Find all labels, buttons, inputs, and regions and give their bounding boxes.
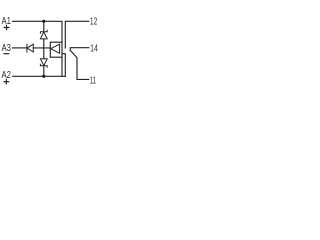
node junction on A2 wire <box>42 75 45 78</box>
polarity + under A1 <box>4 25 9 29</box>
wire mechanical link tick <box>62 54 65 77</box>
svg-text:12: 12 <box>90 17 98 28</box>
contact arm diagonal to common <box>70 50 89 79</box>
wire between zener diodes <box>43 39 45 59</box>
wire suppressor branch lower <box>43 66 45 77</box>
terminal label 14 <box>90 43 98 54</box>
wire A3 horizontal <box>13 47 27 49</box>
wire coil bottom drop to A2 <box>61 57 63 76</box>
relay coil K1 box <box>50 42 62 57</box>
terminal label 11 <box>90 76 96 87</box>
diode D1 triangle pointing left <box>27 44 33 52</box>
polarity - under A3 <box>4 53 9 55</box>
zener diode Z1 cathode bar <box>40 30 47 33</box>
relay coil K1 polarity triangle <box>51 44 60 53</box>
zener diode Z2 triangle <box>40 59 47 66</box>
wire A1 horizontal with drop to coil <box>13 21 63 42</box>
zener diode Z2 cathode bar <box>40 64 47 67</box>
terminal label A2 <box>2 70 12 81</box>
svg-text:14: 14 <box>90 43 98 54</box>
terminal label A1 <box>2 16 12 27</box>
wire A3 to coil <box>33 47 50 49</box>
wire terminal 14 with NO contact stub <box>70 48 89 51</box>
diode D1 cathode bar <box>26 44 28 52</box>
wire A2 horizontal <box>13 75 66 77</box>
terminal label 12 <box>90 17 98 28</box>
svg-text:A3: A3 <box>2 43 12 54</box>
node junction on A1 wire <box>42 20 45 23</box>
polarity + under A2 <box>4 80 9 84</box>
wire terminal 12 with drop to NC contact tip <box>65 21 89 48</box>
svg-text:11: 11 <box>90 76 96 87</box>
zener diode Z1 triangle <box>40 32 47 39</box>
terminal label A3 <box>2 43 12 54</box>
wire suppressor branch upper <box>43 21 45 31</box>
